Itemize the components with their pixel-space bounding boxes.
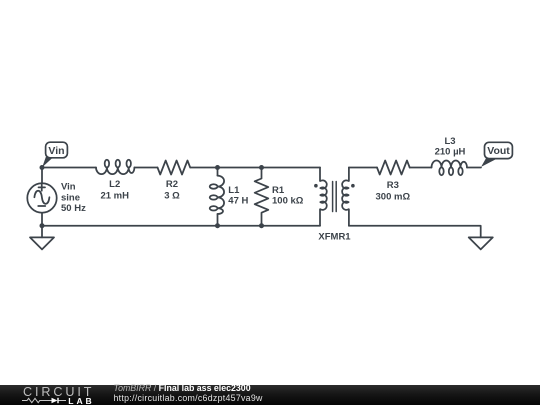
svg-text:21 mH: 21 mH <box>100 190 129 201</box>
svg-text:300 mΩ: 300 mΩ <box>376 191 411 202</box>
svg-text:3 Ω: 3 Ω <box>164 190 180 201</box>
svg-text:Vin: Vin <box>61 182 76 193</box>
svg-text:Vout: Vout <box>487 145 510 157</box>
svg-text:XFMR1: XFMR1 <box>318 231 351 242</box>
svg-text:L2: L2 <box>109 179 120 190</box>
svg-text:L3: L3 <box>444 136 455 147</box>
svg-text:Vin: Vin <box>48 145 64 157</box>
svg-text:100 kΩ: 100 kΩ <box>272 196 304 207</box>
svg-text:R1: R1 <box>272 185 285 196</box>
svg-text:50 Hz: 50 Hz <box>61 203 86 214</box>
svg-text:47 H: 47 H <box>228 196 248 207</box>
svg-text:R2: R2 <box>166 179 178 190</box>
svg-text:R3: R3 <box>387 180 399 191</box>
svg-text:sine: sine <box>61 192 80 203</box>
svg-text:210 µH: 210 µH <box>435 147 466 158</box>
svg-text:L1: L1 <box>228 185 240 196</box>
